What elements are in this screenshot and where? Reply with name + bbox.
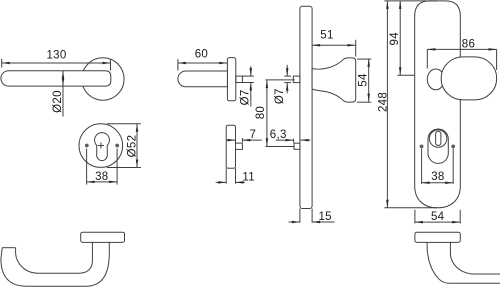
svg-text:86: 86 [462, 39, 475, 51]
svg-text:38: 38 [431, 171, 444, 183]
cylinder circle [429, 130, 447, 148]
dim 86 ext left [426, 49, 428, 68]
rose edge view (top) [227, 58, 235, 101]
dim 80 extension bottom [265, 146, 294, 148]
svg-text:130: 130 [46, 49, 66, 61]
dim Ø7 backplate arrow down [286, 65, 288, 76]
dim 51 ext right [355, 40, 357, 57]
svg-text:15: 15 [318, 211, 331, 223]
dim 15 arrow right [289, 221, 300, 223]
dim Ø52 extension top [107, 123, 141, 125]
svg-text:54: 54 [431, 211, 445, 223]
handle side view inner outline (bottom right) [450, 242, 500, 274]
dim 54 knob line [368, 59, 370, 102]
svg-text:94: 94 [389, 32, 401, 46]
dim 54 knob ext top [357, 58, 371, 60]
dim 6,3 arrow left [301, 139, 311, 141]
dim 130 arrow left [2, 62, 10, 65]
dim Ø7 backplate tick bottom [284, 82, 291, 84]
svg-text:60: 60 [195, 49, 208, 61]
dim Ø52 extension bottom [107, 167, 141, 169]
svg-text:11: 11 [242, 171, 255, 183]
dim 7 arrow right [226, 139, 235, 141]
dim 11 arrow right [216, 181, 227, 183]
dim 54 plate ext left [414, 210, 416, 224]
dim Ø7 rose ext bottom [242, 82, 254, 84]
dim 54 plate ext right [459, 210, 461, 224]
dim Ø7 backplate arrow up [286, 83, 288, 94]
dim 54 knob ext bottom [357, 101, 372, 103]
dim 15 ext left [299, 209, 301, 223]
backplate edge view [300, 6, 312, 208]
dim 86 ext right [496, 49, 498, 70]
dim 248 extension bottom [384, 207, 437, 209]
dim 248 extension top [384, 0, 437, 2]
svg-text:Ø7: Ø7 [239, 89, 251, 105]
escutcheon edge view [226, 125, 235, 168]
security backplate front view [415, 1, 461, 208]
dim Ø7 rose ext top [242, 75, 254, 77]
svg-text:38: 38 [95, 171, 108, 183]
dim 38 rosette line [87, 181, 118, 183]
euro profile keyhole [95, 133, 110, 161]
dim 38 plate line [422, 182, 454, 184]
dim 7 arrow left [242, 139, 261, 141]
svg-text:Ø52: Ø52 [127, 135, 139, 158]
dim Ø7 rose arrow down [250, 66, 252, 76]
svg-text:54: 54 [357, 73, 369, 87]
dim 38 rosette ext left [86, 149, 88, 185]
dim 60 line [178, 62, 227, 64]
handle side view rose plate (bottom left) [81, 232, 125, 242]
key slot [436, 131, 441, 145]
lever bar top view [178, 71, 227, 87]
dim 94 line [399, 1, 401, 75]
dim 130 arrow right [103, 62, 111, 65]
cylinder tab on escutcheon edge [236, 143, 243, 149]
svg-text:51: 51 [320, 30, 333, 42]
svg-text:Ø20: Ø20 [52, 90, 64, 113]
dim 38 plate ext right [452, 149, 454, 184]
cylinder square (backplate) [294, 143, 300, 149]
screw dot left [85, 144, 89, 148]
svg-text:80: 80 [255, 106, 267, 119]
rose circle (lever front view) [82, 58, 124, 100]
dim 15 ext right [311, 209, 313, 223]
dim 7 tick [241, 138, 243, 142]
dim 11 ext left [225, 168, 227, 184]
dim 86 line [427, 48, 496, 50]
dim 6,3 tick [293, 139, 295, 143]
svg-text:248: 248 [377, 92, 389, 112]
dim 248 line [386, 1, 388, 208]
center cross mark [98, 145, 104, 147]
handle side view grip end cap [2, 247, 15, 249]
svg-text:7: 7 [249, 129, 256, 141]
dim 11 ext right [235, 168, 237, 184]
dim 54 plate line [415, 221, 460, 223]
handle side view outer outline (bottom right) [427, 242, 500, 283]
dim 130 extension line left [1, 59, 3, 68]
dim Ø7 backplate tick top [284, 75, 291, 77]
dim 51 line [312, 44, 356, 46]
dim 15 arrow left [312, 221, 334, 223]
knob front neck bump [427, 69, 444, 90]
escutcheon rosette circle front view [79, 124, 123, 168]
lever handle bar front view [1, 71, 111, 86]
dim 38 plate ext left [421, 149, 423, 184]
dim Ø52 line [136, 124, 138, 168]
svg-text:Ø7: Ø7 [274, 88, 286, 104]
handle side view outer outline [1, 242, 109, 286]
knob front view [441, 57, 496, 100]
spindle square (backplate) [293, 76, 300, 83]
handle side view inner outline [16, 242, 93, 273]
dim 130 line [2, 62, 111, 64]
dim Ø20 arrow line [62, 71, 64, 117]
dim 80 line [266, 80, 268, 146]
dim 6,3 arrow right [276, 139, 294, 141]
dim Ø7 rose arrow up [250, 83, 252, 107]
svg-text:6,3: 6,3 [270, 129, 287, 141]
dim 38 rosette ext right [116, 149, 118, 185]
handle side view rose plate (bottom right) [415, 232, 460, 242]
screw dot right (plate) [451, 145, 455, 149]
dim 94 extension bottom [397, 74, 414, 76]
screw dot left (plate) [420, 145, 424, 149]
spindle square (rose) [236, 76, 243, 82]
dim 130 extension line right [110, 59, 112, 71]
screw dot right [115, 144, 119, 148]
knob side view [312, 58, 356, 102]
dim 80 extension top [265, 79, 295, 81]
dim 11 arrow left [236, 181, 246, 183]
dim 60 extension left [177, 59, 179, 70]
security cylinder oval [428, 129, 448, 163]
